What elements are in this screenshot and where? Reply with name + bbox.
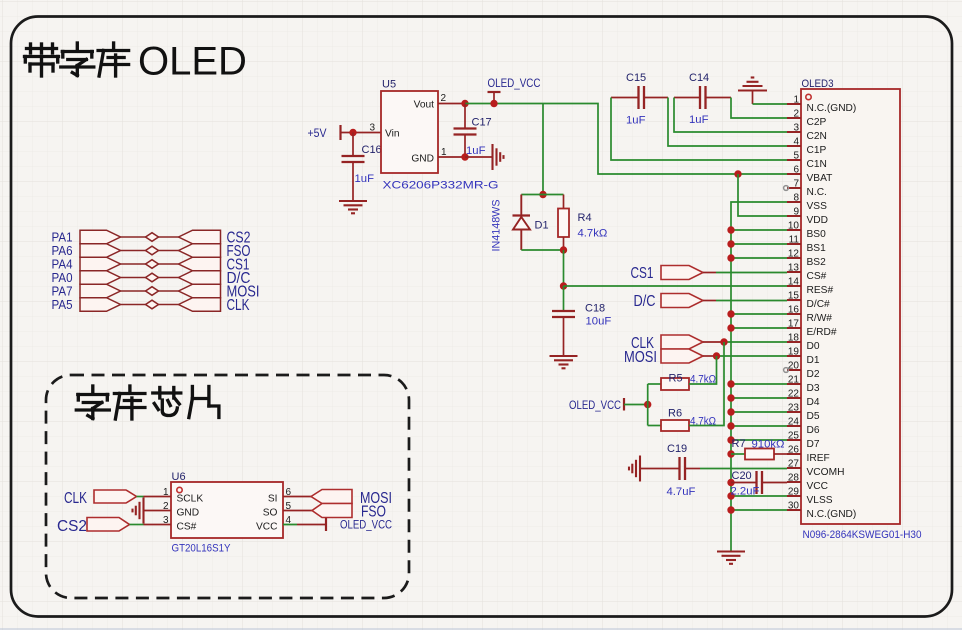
svg-text:3: 3 — [369, 123, 375, 134]
svg-text:VCOMH: VCOMH — [807, 467, 845, 478]
right port flag CLK — [179, 298, 221, 312]
OLED3 pin 6 stub — [787, 173, 801, 175]
svg-text:CS2: CS2 — [57, 518, 87, 535]
svg-text:29: 29 — [788, 487, 800, 498]
svg-text:OLED: OLED — [138, 40, 247, 84]
junction gnd D6 — [727, 422, 734, 429]
svg-text:IN4148WS: IN4148WS — [491, 199, 503, 251]
svg-text:C17: C17 — [472, 117, 492, 129]
wire D1 loop top — [521, 194, 563, 196]
junction RES# — [560, 282, 567, 289]
svg-text:Vin: Vin — [385, 129, 400, 140]
node diamond D/C — [146, 273, 159, 282]
OLED3 pin 21 stub — [787, 383, 801, 385]
wire diamond to MOSI — [159, 290, 179, 292]
wire VBAT to VDD — [738, 174, 787, 216]
dashed box 字库芯片 — [46, 375, 409, 598]
svg-text:10: 10 — [788, 221, 800, 232]
svg-text:D0: D0 — [807, 341, 820, 352]
wire R5R6 vertical — [647, 384, 649, 426]
wire Vout to OLED_VCC flag — [465, 103, 543, 105]
svg-text:D/C: D/C — [634, 293, 656, 310]
svg-text:1uF: 1uF — [689, 114, 709, 126]
svg-text:BS1: BS1 — [807, 243, 827, 254]
svg-text:20: 20 — [788, 361, 800, 372]
svg-text:3: 3 — [793, 123, 799, 134]
wire gnd bus to R/W# — [731, 313, 787, 315]
wire VSS ground bus — [731, 202, 787, 551]
OLED3 pin 8 stub — [787, 201, 801, 203]
wire CLK to SCLK — [137, 496, 144, 498]
capacitor C17 — [454, 129, 477, 135]
junction gnd D5 — [727, 408, 734, 415]
svg-text:C20: C20 — [732, 470, 752, 482]
svg-text:D3: D3 — [807, 383, 820, 394]
svg-text:VCC: VCC — [256, 522, 278, 533]
svg-text:D5: D5 — [807, 411, 820, 422]
junction gnd E/RD# — [727, 324, 734, 331]
right port flag FSO — [179, 244, 221, 258]
svg-text:N.C.(GND): N.C.(GND) — [807, 509, 857, 520]
svg-text:+5V: +5V — [308, 127, 327, 140]
svg-text:C1N: C1N — [807, 159, 827, 170]
diode D1 — [513, 195, 531, 251]
port CLK — [661, 335, 703, 349]
svg-text:R4: R4 — [578, 212, 592, 224]
junction D1/R5 — [713, 352, 720, 359]
OLED3 pin 11 stub — [787, 243, 801, 245]
resistor R6 — [661, 420, 689, 431]
svg-text:14: 14 — [788, 277, 800, 288]
OLED3 pin 19 stub — [787, 355, 801, 357]
svg-text:GT20L16S1Y: GT20L16S1Y — [172, 543, 231, 555]
junction gnd BS0 — [727, 226, 734, 233]
junction Vout/C17 — [461, 100, 468, 107]
svg-text:D1: D1 — [807, 355, 820, 366]
wire gnd bus to D5 — [731, 411, 787, 413]
right port flag D/C — [179, 271, 221, 285]
svg-text:R6: R6 — [668, 408, 682, 420]
capacitor C14 — [674, 86, 731, 109]
junction R4 bottom — [560, 246, 567, 253]
svg-text:D/C#: D/C# — [807, 299, 831, 310]
wire C19 to VCOMH — [700, 468, 787, 470]
wire R5 to D1 — [689, 356, 717, 384]
svg-text:C2P: C2P — [807, 117, 827, 128]
svg-text:D2: D2 — [807, 369, 820, 380]
wire gnd bus to VLSS — [731, 495, 787, 497]
wire CLK to D0 — [703, 341, 787, 343]
svg-text:CS#: CS# — [177, 522, 197, 533]
right port flag CS1 — [179, 257, 221, 271]
wire down to C18 — [563, 286, 565, 311]
ground at bus bottom — [717, 552, 745, 564]
svg-text:C2N: C2N — [807, 131, 827, 142]
OLED3 pin 1 stub — [787, 103, 801, 105]
svg-text:OLED_VCC: OLED_VCC — [569, 399, 621, 412]
wire C16 up — [352, 133, 354, 157]
svg-text:R/W#: R/W# — [807, 313, 833, 324]
junction gnd BS1 — [727, 240, 734, 247]
OLED3 pin 14 stub — [787, 285, 801, 287]
wire C14 right to C2P — [731, 98, 787, 119]
wire PA6 to diamond — [121, 250, 146, 252]
svg-text:SI: SI — [268, 494, 278, 505]
wire Vout pin2 — [438, 103, 465, 105]
OLED3 pin 26 stub — [787, 453, 801, 455]
svg-text:BS0: BS0 — [807, 229, 827, 240]
node diamond CS2 — [146, 233, 159, 242]
U6 pin1 marker — [177, 487, 182, 492]
junction gnd D7 — [727, 436, 734, 443]
svg-text:RES#: RES# — [807, 285, 834, 296]
wire gnd bus to D3 — [731, 383, 787, 385]
svg-text:21: 21 — [788, 375, 800, 386]
wire OLED_VCC down to D1 — [542, 104, 544, 195]
svg-text:Vout: Vout — [414, 100, 435, 111]
wire PA4 to diamond — [121, 263, 146, 265]
wire gnd bus to N.C.(GND) pin30 — [731, 509, 787, 511]
wire C14 left to C2N — [674, 98, 787, 133]
svg-text:VSS: VSS — [807, 201, 828, 212]
svg-text:2: 2 — [793, 109, 799, 120]
svg-text:MOSI: MOSI — [624, 349, 657, 366]
svg-text:7: 7 — [793, 179, 799, 190]
node diamond CLK — [146, 300, 159, 309]
junction gnd BS2 — [727, 254, 734, 261]
ground right of U5 — [493, 144, 504, 170]
wire R6 to D0 — [689, 342, 724, 426]
svg-text:C16: C16 — [362, 144, 382, 156]
wire diamond to FSO — [159, 250, 179, 252]
svg-text:17: 17 — [788, 319, 800, 330]
svg-text:26: 26 — [788, 445, 800, 456]
svg-text:VLSS: VLSS — [807, 495, 833, 506]
wire diamond to CS2 — [159, 236, 179, 238]
wire GND pin1 — [438, 156, 465, 158]
chip U6 body — [171, 482, 283, 538]
junction D0/R6 — [720, 338, 727, 345]
left port flag PA5 — [80, 298, 121, 312]
svg-text:GND: GND — [411, 154, 434, 165]
wire to R7 — [731, 453, 745, 455]
power flag OLED_VCC (U6) — [326, 518, 392, 532]
OLED3 pin 2 stub — [787, 117, 801, 119]
junction gnd R/W# — [727, 310, 734, 317]
wire CS2 to CS# — [130, 524, 144, 526]
wire gnd bus to BS0 — [731, 229, 787, 231]
junction OLED_VCC/R5R6 — [644, 401, 651, 408]
port FSO (U6) — [312, 504, 352, 518]
junction OLED_VCC flag — [490, 100, 497, 107]
junction D1 top — [539, 191, 546, 198]
svg-text:1uF: 1uF — [355, 173, 375, 185]
svg-text:R7: R7 — [732, 438, 746, 450]
svg-text:1uF: 1uF — [626, 115, 646, 127]
svg-text:GND: GND — [177, 508, 200, 519]
svg-text:11: 11 — [789, 235, 800, 246]
no-connect pin7 — [784, 186, 789, 191]
junction C16/+5V — [349, 129, 356, 136]
svg-text:19: 19 — [788, 347, 800, 358]
svg-text:VDD: VDD — [807, 215, 829, 226]
svg-text:U5: U5 — [382, 79, 396, 91]
wire VCC to flag — [297, 524, 326, 526]
svg-text:N.C.: N.C. — [807, 187, 827, 198]
svg-text:12: 12 — [788, 249, 800, 260]
wire R7 to IREF — [774, 453, 787, 455]
svg-text:SCLK: SCLK — [177, 494, 204, 505]
left port flag PA6 — [80, 244, 121, 258]
OLED3 pin 22 stub — [787, 397, 801, 399]
svg-text:PA5: PA5 — [52, 297, 73, 312]
svg-text:R5: R5 — [669, 373, 683, 385]
wire gnd bus to E/RD# — [731, 327, 787, 329]
wire diamond to CS1 — [159, 263, 179, 265]
svg-text:BS2: BS2 — [807, 257, 827, 268]
junction VBAT — [734, 170, 741, 177]
wire OLED_VCC to VBAT — [543, 104, 787, 175]
svg-text:18: 18 — [788, 333, 800, 344]
OLED3 pin 20 stub — [787, 369, 801, 371]
junction gnd D3 — [727, 380, 734, 387]
wire down to RES branch — [563, 250, 565, 286]
resistor R7 — [745, 449, 774, 460]
node diamond CS1 — [146, 260, 159, 269]
svg-text:VBAT: VBAT — [807, 173, 833, 184]
ground below C16 — [339, 201, 367, 213]
capacitor C16 — [342, 156, 365, 162]
OLED3 pin 29 stub — [787, 495, 801, 497]
svg-text:15: 15 — [788, 291, 800, 302]
OLED3 pin 7 stub — [787, 187, 801, 189]
ground at U6 pin2 — [133, 498, 144, 524]
svg-text:D1: D1 — [535, 220, 549, 232]
left port flag PA0 — [80, 271, 121, 285]
OLED3 pin 30 stub — [787, 509, 801, 511]
U6 pin 6 stub — [283, 496, 311, 498]
svg-text:XC6206P332MR-G: XC6206P332MR-G — [383, 180, 499, 192]
OLED3 pin 23 stub — [787, 411, 801, 413]
junction gnd D4 — [727, 394, 734, 401]
OLED3 pin 24 stub — [787, 425, 801, 427]
U6 pin 1 stub — [144, 496, 172, 498]
ground left of C19 — [629, 456, 640, 482]
svg-text:13: 13 — [788, 263, 800, 274]
OLED3 pin 3 stub — [787, 131, 801, 133]
U6 pin 2 stub — [144, 510, 172, 512]
ground below C18 — [550, 356, 578, 368]
OLED3 pin 15 stub — [787, 299, 801, 301]
wire diamond to CLK — [159, 304, 179, 306]
node diamond FSO — [146, 246, 159, 255]
svg-text:C14: C14 — [689, 72, 709, 84]
OLED3 pin1 marker — [806, 94, 811, 99]
wire C17 up — [464, 104, 466, 129]
svg-text:1: 1 — [793, 95, 799, 106]
wire C16 down — [352, 162, 354, 201]
svg-text:10uF: 10uF — [586, 316, 612, 328]
svg-text:2.2uF: 2.2uF — [731, 486, 760, 498]
wire to R5 — [648, 383, 661, 385]
svg-text:SO: SO — [263, 508, 278, 519]
svg-text:2: 2 — [441, 93, 447, 104]
power flag OLED_VCC mid — [569, 398, 648, 412]
svg-text:CLK: CLK — [227, 297, 250, 314]
svg-text:27: 27 — [788, 459, 800, 470]
title 字库芯片 — [76, 386, 219, 419]
svg-text:OLED3: OLED3 — [802, 78, 834, 90]
svg-text:24: 24 — [788, 417, 800, 428]
svg-text:4.7uF: 4.7uF — [667, 486, 696, 498]
svg-text:VCC: VCC — [807, 481, 829, 492]
svg-text:23: 23 — [788, 403, 800, 414]
capacitor C18 — [552, 311, 575, 317]
wire D/C to pin15 — [703, 300, 787, 302]
svg-text:CLK: CLK — [64, 490, 87, 507]
OLED3 pin 10 stub — [787, 229, 801, 231]
left port flag PA1 — [80, 230, 121, 244]
capacitor C20 — [731, 471, 787, 494]
port CLK (U6) — [94, 490, 137, 503]
svg-text:D6: D6 — [807, 425, 820, 436]
OLED3 pin 5 stub — [787, 159, 801, 161]
resistor R4 — [558, 195, 569, 251]
junction gnd N.C.(GND) pin30 — [727, 506, 734, 513]
capacitor C15 — [611, 86, 668, 109]
svg-text:CS1: CS1 — [631, 265, 654, 282]
svg-text:C19: C19 — [667, 443, 687, 455]
wire to R6 — [648, 425, 661, 427]
junction C20 — [727, 479, 734, 486]
wire gnd bus to BS1 — [731, 243, 787, 245]
wire C18 down — [563, 317, 565, 356]
power flag OLED_VCC top — [488, 77, 541, 104]
wire diamond to D/C — [159, 277, 179, 279]
title 带字库OLED (CJK part) — [25, 43, 129, 76]
wire PA1 to diamond — [121, 236, 146, 238]
svg-text:4: 4 — [793, 137, 799, 148]
svg-text:N096-2864KSWEG01-H30: N096-2864KSWEG01-H30 — [803, 529, 922, 541]
wire MOSI to D1 — [703, 355, 787, 357]
wire gnd bus to BS2 — [731, 257, 787, 259]
svg-text:25: 25 — [788, 431, 800, 442]
capacitor C19 — [640, 457, 700, 480]
port MOSI — [661, 349, 703, 363]
wire gnd bus to D7 — [731, 439, 787, 441]
svg-text:8: 8 — [793, 193, 799, 204]
svg-text:16: 16 — [788, 305, 800, 316]
connector OLED3 body — [801, 89, 900, 524]
junction gnd VLSS — [727, 492, 734, 499]
svg-text:N.C.(GND): N.C.(GND) — [807, 103, 857, 114]
port CS2 (U6) — [87, 518, 130, 532]
junction R7 — [727, 450, 734, 457]
resistor R5 — [661, 378, 689, 390]
OLED3 pin 28 stub — [787, 481, 801, 483]
wire PA5 to diamond — [121, 304, 146, 306]
svg-text:U6: U6 — [172, 471, 186, 483]
svg-text:D7: D7 — [807, 439, 820, 450]
right port flag MOSI — [179, 284, 221, 298]
U6 pin 3 stub — [144, 524, 172, 526]
op-amp U5 body — [381, 91, 438, 173]
left port flag PA7 — [80, 284, 121, 298]
wire to ground symbol — [465, 156, 493, 158]
node diamond MOSI — [146, 287, 159, 296]
OLED3 pin 12 stub — [787, 257, 801, 259]
wire ground to pin1 — [753, 91, 788, 105]
junction GND/C17 — [461, 153, 468, 160]
OLED3 pin 16 stub — [787, 313, 801, 315]
svg-text:OLED_VCC: OLED_VCC — [488, 77, 541, 90]
svg-text:22: 22 — [788, 389, 800, 400]
svg-text:E/RD#: E/RD# — [807, 327, 837, 338]
svg-text:9: 9 — [793, 207, 799, 218]
OLED3 pin 17 stub — [787, 327, 801, 329]
OLED3 pin 25 stub — [787, 439, 801, 441]
wire C15 right to C1P — [668, 98, 787, 147]
wire RES# to pin14 — [564, 285, 788, 287]
wire PA7 to diamond — [121, 290, 146, 292]
right port flag CS2 — [179, 230, 221, 244]
U6 pin 4 stub — [283, 524, 297, 526]
port MOSI (U6) — [311, 490, 352, 504]
wire C17 down — [464, 135, 466, 158]
svg-text:D4: D4 — [807, 397, 820, 408]
left port flag PA4 — [80, 257, 121, 271]
wire D1 loop bottom — [521, 249, 563, 251]
svg-text:C15: C15 — [626, 72, 646, 84]
svg-text:IREF: IREF — [807, 453, 830, 464]
ground above pin1 — [738, 78, 767, 91]
port CS1 — [661, 266, 703, 280]
OLED3 pin 27 stub — [787, 467, 801, 469]
wire PA0 to diamond — [121, 277, 146, 279]
wire gnd bus to D6 — [731, 425, 787, 427]
OLED3 pin 4 stub — [787, 145, 801, 147]
svg-text:4.7kΩ: 4.7kΩ — [578, 228, 608, 240]
U6 pin 5 stub — [283, 510, 312, 512]
port D/C — [661, 294, 703, 308]
svg-text:28: 28 — [788, 473, 800, 484]
wire CS1 to pin13 — [703, 272, 787, 274]
power flag +5V — [308, 125, 341, 140]
no-connect pin20 D2 — [784, 368, 789, 373]
svg-text:C18: C18 — [585, 303, 605, 315]
svg-text:OLED_VCC: OLED_VCC — [340, 519, 392, 532]
svg-text:30: 30 — [788, 501, 800, 512]
wire C15 left to C1N — [611, 98, 787, 161]
OLED3 pin 9 stub — [787, 215, 801, 217]
svg-text:1uF: 1uF — [466, 145, 486, 157]
svg-text:5: 5 — [793, 151, 799, 162]
wire +5V to Vin — [341, 132, 382, 134]
svg-text:910kΩ: 910kΩ — [752, 439, 785, 451]
svg-text:6: 6 — [793, 165, 799, 176]
OLED3 pin 13 stub — [787, 271, 801, 273]
svg-text:CS#: CS# — [807, 271, 827, 282]
wire gnd bus to D4 — [731, 397, 787, 399]
svg-text:C1P: C1P — [807, 145, 827, 156]
OLED3 pin 18 stub — [787, 341, 801, 343]
